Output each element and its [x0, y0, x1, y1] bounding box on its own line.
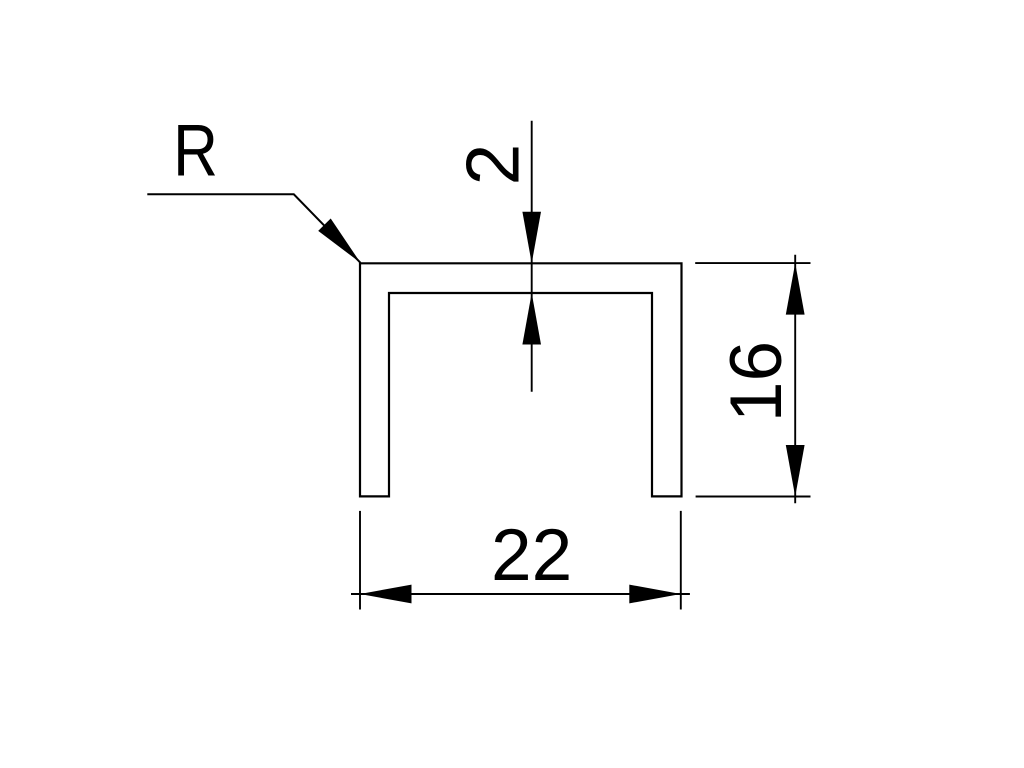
svg-text:16: 16 — [716, 341, 797, 422]
svg-text:2: 2 — [451, 144, 535, 186]
U-channel profile outline — [360, 263, 682, 496]
dimension 16: bottom extension line — [696, 496, 811, 498]
svg-text:22: 22 — [491, 515, 572, 596]
leader arrowhead — [318, 219, 360, 263]
dimension 22: left extension line — [359, 511, 361, 610]
dimension 16: top extension line — [695, 262, 810, 264]
dimension 2: upper arrowhead (points down) — [522, 212, 541, 263]
dimension 2: vertical dimension line — [531, 121, 533, 392]
svg-text:R: R — [173, 111, 218, 192]
dimension 2: lower arrowhead (points up) — [522, 293, 541, 345]
dimension 22: dimension line — [351, 593, 690, 595]
dimension 16: dimension line — [794, 255, 796, 503]
dimension 22: right arrowhead (points right) — [629, 585, 681, 604]
dimension 22: right extension line — [680, 511, 682, 610]
dimension 22: left arrowhead (points left) — [360, 585, 412, 604]
dimension 16: upper arrowhead (points up) — [786, 263, 805, 315]
dimension 16: lower arrowhead (points down) — [786, 445, 805, 497]
leader line for R — [147, 194, 360, 262]
